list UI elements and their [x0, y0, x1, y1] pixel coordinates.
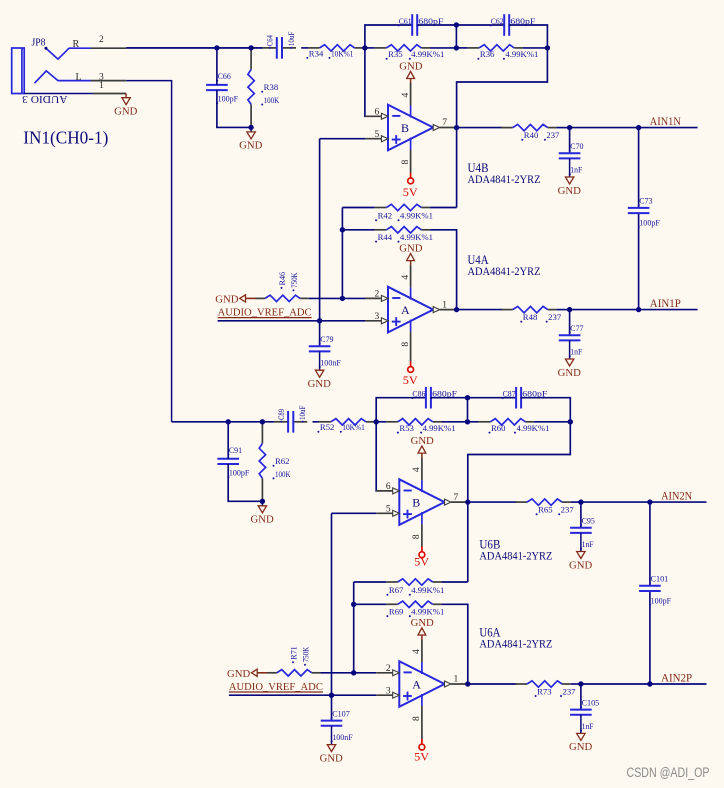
junction v24 at pin2 — [351, 670, 356, 675]
ground — [239, 127, 263, 151]
svg-text:ADA4841-2YRZ: ADA4841-2YRZ — [468, 264, 541, 278]
pin 2 (inverting input) — [376, 664, 399, 676]
svg-text:ADA4841-2YRZ: ADA4841-2YRZ — [479, 637, 552, 651]
svg-text:8: 8 — [412, 716, 422, 721]
junction v24 at R44 — [340, 227, 345, 232]
svg-text:4.99K%1: 4.99K%1 — [400, 232, 433, 242]
wire R52 to node N1 — [375, 421, 377, 423]
power 5V — [403, 173, 419, 199]
svg-text:4.99K%1: 4.99K%1 — [505, 49, 538, 59]
svg-text:GND: GND — [558, 186, 582, 197]
pin 6 (inverting input) — [365, 108, 388, 120]
svg-text:A: A — [412, 677, 421, 691]
designator U4A — [468, 253, 541, 278]
junction node N1 — [374, 419, 379, 424]
resistor R35 feedback — [375, 45, 445, 60]
wire N1 up to cap row — [365, 25, 412, 48]
ground — [411, 618, 435, 640]
resistor R67 feedback — [386, 579, 444, 596]
svg-text:C73: C73 — [639, 196, 652, 206]
wire C66 bottom to ground rail — [217, 90, 251, 127]
wire net AIN1N stub — [639, 127, 698, 129]
ground — [558, 158, 582, 196]
svg-text:4.99K%1: 4.99K%1 — [423, 423, 456, 433]
wire C107 stub — [331, 695, 333, 720]
svg-text:GND: GND — [308, 379, 332, 390]
svg-text:C62: C62 — [491, 16, 504, 26]
audio jack connector JP8 — [12, 48, 91, 94]
wire feedback return — [468, 422, 571, 582]
svg-text:ADA4841-2YRZ: ADA4841-2YRZ — [468, 172, 541, 186]
resistor R60 feedback — [479, 419, 550, 434]
wire C105 stub — [580, 684, 582, 710]
svg-text:100pF: 100pF — [639, 217, 660, 227]
wire Rf1 to N2 — [430, 47, 456, 49]
svg-text:R38: R38 — [264, 82, 279, 92]
junction CH1 input at R38 — [248, 45, 253, 50]
designator U6B — [479, 538, 552, 563]
capacitor C86 feedback — [411, 387, 457, 409]
svg-text:6: 6 — [375, 108, 380, 118]
net label AUDIO_VREF_ADC — [218, 308, 312, 319]
svg-text:C105: C105 — [582, 697, 600, 707]
power 5V — [403, 361, 419, 387]
svg-text:JP8: JP8 — [32, 37, 46, 49]
svg-text:C77: C77 — [570, 323, 583, 333]
junction v24 at pin2 — [340, 296, 345, 301]
net label AIN1P — [650, 298, 681, 310]
resistor R62 shunt — [259, 422, 291, 502]
capacitor C87 feedback — [502, 387, 548, 409]
svg-text:2: 2 — [99, 35, 104, 45]
svg-text:750K: 750K — [289, 272, 299, 288]
wire rail vertical lower — [638, 213, 640, 310]
svg-text:4.99K%1: 4.99K%1 — [411, 607, 444, 617]
svg-text:C101: C101 — [651, 573, 669, 583]
svg-text:100pF: 100pF — [229, 468, 250, 478]
svg-text:R69: R69 — [389, 607, 404, 617]
resistor R69 feedback — [386, 601, 444, 617]
wire R42 row — [354, 581, 386, 583]
wire output B to Rout — [456, 127, 502, 129]
svg-text:7: 7 — [454, 493, 459, 503]
junction AIN-N shunt node — [578, 499, 583, 504]
capacitor C66 shunt — [206, 71, 238, 104]
capacitor C107 vref — [321, 708, 353, 742]
svg-text:750K: 750K — [301, 646, 311, 662]
wire C91 top stub — [227, 422, 229, 459]
wire R42 to fb vertical — [430, 207, 457, 209]
wire v24 vertical — [353, 582, 355, 673]
wire N1 to R-f1 — [376, 421, 386, 423]
svg-text:IN1(CH0-1): IN1(CH0-1) — [23, 128, 108, 149]
pin 4 (V-) to GND — [401, 265, 411, 300]
svg-text:R52: R52 — [320, 422, 335, 432]
wire N1 down to pin6 — [375, 422, 377, 491]
wire rail vertical — [649, 502, 651, 586]
svg-text:1nF: 1nF — [582, 539, 594, 549]
wire net AIN1P stub — [639, 309, 698, 311]
wire output A to RoutA — [456, 309, 502, 311]
svg-text:10uF: 10uF — [286, 31, 296, 46]
svg-text:4: 4 — [401, 275, 411, 280]
resistor R38 shunt — [248, 48, 280, 128]
svg-text:1: 1 — [454, 675, 459, 685]
pin 4 (V-) to GND — [412, 458, 422, 493]
wire R channel from pin 2 — [126, 47, 262, 49]
title IN1(CH0-1) — [23, 128, 108, 149]
wire Rout to AIN-N node — [571, 501, 581, 503]
junction vref junction — [329, 693, 334, 698]
wire C79 stub — [319, 321, 321, 346]
junction R62 bottom — [260, 499, 265, 504]
svg-text:1nF: 1nF — [570, 165, 582, 175]
svg-text:8: 8 — [401, 342, 411, 347]
junction AIN-P rail node — [647, 681, 652, 686]
svg-text:GND: GND — [569, 742, 593, 753]
capacitor C95 shunt — [570, 516, 595, 550]
svg-text:1nF: 1nF — [570, 347, 582, 357]
resistor R71 bias — [267, 646, 320, 676]
wire N1 down to pin6 — [364, 48, 366, 116]
pin 7 (output) — [433, 118, 456, 130]
svg-text:10uF: 10uF — [297, 405, 307, 420]
svg-text:R62: R62 — [275, 456, 290, 466]
svg-text:GND: GND — [411, 618, 435, 629]
svg-text:4.99K%1: 4.99K%1 — [411, 49, 444, 59]
label AUDIO 3 (rotated) — [22, 93, 67, 104]
wire CH1 input row — [126, 47, 262, 49]
junction AIN-P shunt node — [578, 681, 583, 686]
resistor R42 feedback — [375, 204, 433, 221]
wire net AIN2N stub — [650, 501, 707, 503]
svg-text:100K: 100K — [264, 95, 280, 105]
capacitor C62 feedback — [490, 14, 536, 36]
resistor R53 feedback — [386, 419, 456, 434]
capacitor C70 shunt — [559, 141, 584, 175]
wire AIN-N to rail — [570, 127, 639, 129]
wire C66 top stub — [216, 48, 218, 85]
svg-text:C66: C66 — [218, 71, 231, 81]
wire N2 vertical — [455, 25, 457, 48]
pin 8 (V+) to 5V — [401, 320, 411, 362]
resistor R46 bias — [256, 272, 309, 302]
svg-text:4.99K%1: 4.99K%1 — [517, 423, 550, 433]
op-amp U4A — [388, 287, 433, 333]
capacitor C101 across — [639, 573, 671, 606]
svg-text:R71: R71 — [289, 646, 299, 660]
svg-text:GND: GND — [399, 61, 423, 72]
svg-text:A: A — [401, 303, 410, 317]
junction CH1 input at C66 — [214, 45, 219, 50]
pin 8 (V+) to 5V — [412, 512, 422, 547]
wire jack sleeve to pin 1 — [24, 93, 93, 95]
svg-text:R60: R60 — [491, 423, 506, 433]
pin 5 (non-inverting input) — [376, 505, 399, 517]
wire N2 to C87 — [468, 397, 517, 399]
svg-text:4: 4 — [412, 649, 422, 654]
wire Rb to pin2 row — [321, 672, 377, 674]
svg-text:AUDIO_VREF_ADC: AUDIO_VREF_ADC — [218, 308, 312, 319]
wire net AIN2P stub — [650, 683, 707, 685]
svg-text:CSDN @ADI_OP: CSDN @ADI_OP — [627, 765, 710, 780]
junction AIN-N rail node — [647, 499, 652, 504]
wire vref row — [229, 694, 376, 696]
svg-text:R34: R34 — [309, 48, 324, 58]
wire vref row — [218, 320, 365, 322]
svg-text:C89: C89 — [276, 409, 286, 420]
wire output A to RoutA — [468, 683, 517, 685]
svg-text:R36: R36 — [480, 49, 495, 59]
wire pin5 from vref rail — [332, 512, 377, 514]
junction AIN-P rail node — [636, 307, 641, 312]
svg-text:5: 5 — [386, 505, 391, 515]
svg-text:4.99K%1: 4.99K%1 — [400, 211, 433, 221]
ground — [320, 726, 344, 765]
svg-text:GND: GND — [251, 515, 275, 526]
svg-text:B: B — [412, 495, 420, 509]
pin 1 of JP8 — [93, 81, 126, 93]
svg-text:R42: R42 — [378, 211, 393, 221]
svg-text:GND: GND — [114, 107, 138, 118]
capacitor C73 across — [628, 196, 660, 229]
svg-text:GND: GND — [227, 669, 251, 680]
pin 3 of JP8 — [91, 73, 126, 83]
svg-text:237: 237 — [546, 130, 559, 140]
capacitor C89 series — [274, 405, 307, 432]
wire C70 stub — [569, 128, 571, 154]
svg-text:AIN2N: AIN2N — [661, 490, 693, 502]
ground — [114, 94, 138, 118]
ground — [569, 715, 593, 753]
wire RoutA to AIN-P node — [571, 683, 581, 685]
wire N2 to C62 — [456, 24, 504, 26]
pin 2 (inverting input) — [365, 290, 388, 302]
wire AIN-P to rail — [581, 683, 650, 685]
pin 8 (V+) to 5V — [401, 138, 411, 173]
resistor R40 output — [501, 124, 559, 140]
junction output A node — [454, 307, 459, 312]
wire RoutA to AIN-P node — [556, 309, 569, 311]
svg-text:100K: 100K — [275, 469, 291, 479]
ground — [569, 533, 593, 571]
svg-text:4: 4 — [401, 93, 411, 98]
junction feedback right node — [568, 419, 573, 424]
power 5V — [414, 547, 430, 569]
junction AIN-P shunt node — [567, 307, 572, 312]
svg-text:4.99K%1: 4.99K%1 — [411, 585, 444, 595]
svg-text:100nF: 100nF — [332, 732, 353, 742]
junction node N2 bottom — [454, 45, 459, 50]
resistor R44 feedback — [375, 227, 433, 243]
wire AIN-P to rail — [570, 309, 639, 311]
wire vref rail vertical — [319, 139, 321, 321]
wire C77 stub — [569, 310, 571, 336]
wire Rf2 to right corner — [523, 47, 548, 49]
svg-text:2: 2 — [375, 290, 380, 300]
svg-text:L: L — [76, 72, 82, 83]
svg-text:R40: R40 — [524, 130, 539, 140]
svg-text:3: 3 — [375, 312, 380, 322]
wire C95 stub — [580, 502, 582, 528]
svg-text:R: R — [73, 39, 80, 50]
wire rail vertical lower — [649, 591, 651, 684]
wire R44 to fb vertical — [441, 604, 467, 684]
svg-text:C86: C86 — [412, 389, 425, 399]
pin 1 (output) — [445, 675, 468, 687]
svg-text:C64: C64 — [265, 35, 275, 47]
svg-text:C95: C95 — [582, 516, 595, 526]
svg-text:R48: R48 — [523, 312, 538, 322]
svg-text:10K%1: 10K%1 — [342, 422, 365, 432]
junction output B node — [465, 499, 470, 504]
wire C87 to right corner — [521, 398, 570, 422]
wire vref rail vertical — [331, 513, 333, 695]
junction R38 bottom — [248, 125, 253, 130]
svg-text:C87: C87 — [503, 389, 516, 399]
junction vref junction — [317, 318, 322, 323]
junction CH2 input at C91 — [226, 419, 231, 424]
resistor R34 input — [306, 45, 363, 59]
junction AIN-N shunt node — [567, 125, 572, 130]
junction v24 at R44 — [351, 602, 356, 607]
pin 6 (inverting input) — [376, 482, 399, 494]
wire R44 row — [354, 603, 386, 605]
svg-text:5V: 5V — [403, 187, 419, 199]
svg-text:GND: GND — [399, 243, 423, 254]
wire Rf1 to N2 — [441, 421, 467, 423]
junction node N2 top — [454, 22, 459, 27]
junction CH2 input at R62 — [260, 419, 265, 424]
ground — [215, 295, 256, 306]
wire N2 to Rf2 — [468, 421, 479, 423]
svg-text:R46: R46 — [277, 272, 287, 286]
wire v24 vertical — [341, 208, 343, 299]
svg-text:237: 237 — [561, 505, 574, 515]
wire pin5 from vref rail — [320, 138, 365, 140]
ground — [251, 501, 275, 525]
svg-text:C61: C61 — [399, 16, 412, 26]
svg-text:C70: C70 — [570, 141, 583, 151]
svg-text:1nF: 1nF — [582, 721, 594, 731]
svg-text:R73: R73 — [537, 686, 552, 696]
watermark CSDN @ADI_OP — [627, 765, 710, 780]
net label AIN2P — [661, 672, 692, 684]
resistor R52 input — [317, 419, 374, 433]
junction node N2 bottom — [465, 419, 470, 424]
wire Rf2 to right corner — [534, 421, 570, 423]
designator JP8 — [32, 37, 48, 50]
wire AIN-N to rail — [581, 501, 650, 503]
pin 2 of JP8 — [91, 35, 126, 48]
capacitor C105 shunt — [570, 697, 599, 731]
svg-text:2: 2 — [386, 664, 391, 674]
wire C64 to R34 — [301, 47, 308, 49]
svg-text:C79: C79 — [320, 334, 333, 344]
svg-text:8: 8 — [412, 534, 422, 539]
wire Rout to AIN-N node — [556, 127, 569, 129]
ground — [227, 669, 268, 680]
svg-text:B: B — [401, 121, 409, 135]
svg-text:GND: GND — [558, 368, 582, 379]
pin 3 (non-inverting input) — [365, 312, 388, 324]
capacitor C61 feedback — [398, 14, 444, 36]
svg-text:GND: GND — [215, 295, 239, 306]
svg-text:R53: R53 — [399, 423, 414, 433]
pin 3 (non-inverting input) — [376, 686, 399, 698]
svg-text:C107: C107 — [332, 708, 350, 718]
wire N1 to R-f1 — [365, 47, 375, 49]
svg-text:7: 7 — [442, 118, 447, 128]
svg-text:100pF: 100pF — [651, 595, 672, 605]
svg-text:10K%1: 10K%1 — [331, 48, 354, 58]
wire C61 to N2 — [417, 24, 456, 26]
wire rail vertical — [638, 128, 640, 208]
svg-text:C91: C91 — [229, 445, 242, 455]
svg-text:237: 237 — [548, 312, 561, 322]
svg-text:AIN1N: AIN1N — [650, 116, 682, 128]
wire N1 up to cap row — [376, 398, 426, 422]
svg-text:1: 1 — [99, 81, 104, 91]
wire R44 to fb vertical — [430, 230, 457, 310]
wire L channel from pin 3 down to channel 2 — [126, 81, 171, 422]
wire N2 vertical — [467, 398, 469, 422]
designator U4B — [468, 161, 541, 186]
ground — [399, 61, 423, 83]
svg-text:AIN1P: AIN1P — [650, 298, 681, 310]
svg-text:5V: 5V — [414, 751, 430, 763]
svg-text:R44: R44 — [378, 232, 393, 242]
svg-text:GND: GND — [411, 436, 435, 447]
junction output B node — [454, 125, 459, 130]
wire C91 bottom to ground rail — [228, 464, 262, 501]
svg-text:AUDIO 3: AUDIO 3 — [22, 93, 67, 104]
resistor R36 feedback — [468, 45, 539, 60]
junction AIN-N rail node — [636, 125, 641, 130]
wire R34 to node N1 — [363, 47, 365, 49]
capacitor C77 shunt — [559, 323, 584, 357]
pin 5 (non-inverting input) — [365, 130, 388, 142]
capacitor C64 series — [263, 31, 296, 58]
pin 4 (V-) to GND — [401, 83, 411, 118]
resistor R65 output — [515, 499, 573, 515]
wire C86 to N2 — [431, 397, 468, 399]
svg-text:3: 3 — [386, 686, 391, 696]
junction feedback right node — [545, 45, 550, 50]
power 5V — [414, 739, 430, 763]
net label AIN2N — [661, 490, 693, 502]
op-amp U4B — [388, 105, 433, 151]
ground — [308, 351, 332, 390]
wire C62 to right corner — [509, 25, 547, 48]
wire output B to Rout — [468, 501, 517, 503]
svg-text:237: 237 — [563, 686, 576, 696]
wire N2 to Rf2 — [456, 47, 467, 49]
capacitor C91 shunt — [217, 445, 249, 478]
designator U6A — [479, 626, 552, 651]
junction node N2 top — [465, 395, 470, 400]
wire feedback return — [457, 48, 548, 208]
svg-text:GND: GND — [239, 141, 263, 152]
junction output A node — [465, 681, 470, 686]
net label AIN1N — [650, 116, 682, 128]
svg-text:AIN2P: AIN2P — [661, 672, 692, 684]
label R contact — [73, 39, 80, 50]
svg-text:R35: R35 — [388, 49, 403, 59]
svg-text:1: 1 — [442, 300, 447, 310]
wire R42 row — [342, 207, 374, 209]
op-amp U6B — [399, 479, 444, 525]
